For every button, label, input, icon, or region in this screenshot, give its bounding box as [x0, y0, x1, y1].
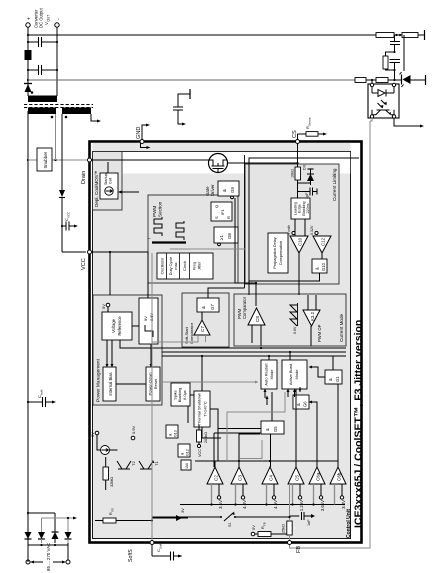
svg-text:Startup: Startup — [104, 173, 108, 185]
svg-text:+: + — [27, 17, 33, 20]
svg-text:Comparator: Comparator — [189, 322, 194, 344]
svg-text:Propagation Delay: Propagation Delay — [273, 237, 277, 268]
svg-text:0.32V: 0.32V — [310, 225, 314, 235]
svg-text:Comparator: Comparator — [242, 296, 247, 319]
svg-text:Active Burst: Active Burst — [288, 363, 293, 385]
svg-text:OUT: OUT — [47, 15, 51, 22]
svg-text:Cell: Cell — [109, 178, 113, 184]
svg-text:Current Limiting: Current Limiting — [332, 168, 337, 201]
svg-text:Drain: Drain — [81, 171, 87, 184]
svg-text:Oscillator: Oscillator — [160, 257, 165, 274]
svg-text:Sense: Sense — [308, 117, 312, 126]
svg-text:C3: C3 — [238, 475, 243, 481]
svg-text:DX: DX — [303, 164, 307, 170]
svg-text:&: & — [328, 378, 333, 381]
svg-text:Control Unit: Control Unit — [346, 509, 352, 538]
svg-text:Blanking: Blanking — [178, 388, 182, 403]
svg-text:VCC: VCC — [67, 211, 71, 218]
svg-text:Clock: Clock — [182, 261, 187, 271]
svg-text:Reset: Reset — [153, 378, 158, 389]
svg-text:C7: C7 — [200, 326, 205, 332]
svg-text:Freq: Freq — [193, 262, 197, 270]
svg-text:SoftS: SoftS — [128, 549, 134, 562]
svg-text:DC Output: DC Output — [39, 7, 44, 28]
svg-text:Q: Q — [214, 205, 219, 208]
svg-text:Voltage: Voltage — [111, 318, 116, 333]
svg-text:Depl. CoolMOS™: Depl. CoolMOS™ — [94, 170, 99, 207]
svg-text:Spike: Spike — [174, 390, 178, 400]
svg-text:&: & — [315, 267, 320, 270]
svg-text:Current Mode: Current Mode — [339, 313, 344, 342]
svg-text:C4: C4 — [269, 475, 274, 481]
svg-text:PWM OP: PWM OP — [317, 324, 322, 342]
svg-text:Mode: Mode — [294, 369, 299, 380]
svg-text:205kΩ: 205kΩ — [204, 432, 208, 443]
svg-text:G13: G13 — [174, 430, 178, 437]
svg-text:9V: 9V — [143, 316, 148, 321]
svg-text:G6: G6 — [303, 401, 308, 407]
svg-text:5V: 5V — [101, 304, 106, 309]
svg-text:GND: GND — [136, 127, 142, 139]
svg-text:Section: Section — [158, 201, 163, 217]
svg-text:Mode: Mode — [269, 369, 274, 380]
svg-text:SS: SS — [111, 508, 115, 512]
svg-text:G12: G12 — [186, 449, 190, 456]
svg-text:&: & — [201, 306, 206, 309]
svg-text:3V: 3V — [181, 508, 185, 513]
svg-text:FB: FB — [263, 522, 267, 526]
svg-text:85 ... 270 VAC: 85 ... 270 VAC — [46, 543, 51, 571]
svg-text:bulk: bulk — [40, 389, 44, 395]
svg-text:32MΩ: 32MΩ — [110, 477, 114, 487]
svg-text:T1: T1 — [154, 461, 159, 466]
svg-text:ICE3xxx65J / CoolSET™, F3 Jitt: ICE3xxx65J / CoolSET™, F3 Jitter version — [353, 320, 365, 528]
svg-text:CS: CS — [292, 130, 298, 138]
svg-text:G8: G8 — [227, 233, 232, 239]
svg-text:R: R — [226, 216, 231, 219]
svg-text:max: max — [174, 262, 178, 269]
svg-text:t: t — [148, 238, 152, 239]
svg-text:1pF: 1pF — [305, 192, 309, 199]
svg-text:0.6V: 0.6V — [293, 326, 297, 334]
svg-text:25kΩ: 25kΩ — [282, 524, 286, 533]
svg-text:Power Management: Power Management — [96, 358, 102, 402]
svg-text:≥1: ≥1 — [219, 235, 224, 240]
svg-text:C6a: C6a — [316, 472, 321, 481]
svg-text:G5: G5 — [273, 426, 278, 432]
svg-text:IF1: IF1 — [220, 208, 225, 215]
svg-text:&: & — [222, 189, 227, 192]
svg-text:5V: 5V — [90, 432, 95, 437]
svg-text:Driver: Driver — [210, 184, 215, 196]
svg-text:G9: G9 — [230, 187, 235, 193]
svg-text:Thermal Shutdown: Thermal Shutdown — [197, 393, 202, 426]
svg-text:Duty Cycle: Duty Cycle — [169, 257, 173, 275]
svg-text:5V: 5V — [251, 525, 256, 530]
svg-text:Snubber: Snubber — [43, 151, 48, 168]
svg-text:10kΩ: 10kΩ — [291, 169, 295, 178]
svg-text:Auto Restart: Auto Restart — [264, 362, 269, 385]
svg-text:Jitter: Jitter — [198, 261, 202, 270]
svg-text:G10: G10 — [321, 262, 326, 271]
svg-text:&: & — [265, 428, 270, 431]
svg-text:Reference: Reference — [117, 316, 122, 336]
svg-text:FB: FB — [296, 546, 302, 553]
svg-text:C10: C10 — [298, 237, 303, 246]
svg-text:1.25V: 1.25V — [299, 500, 304, 511]
svg-text:&: & — [296, 403, 301, 406]
svg-text:C5: C5 — [295, 475, 300, 481]
svg-text:S1: S1 — [228, 522, 232, 527]
svg-text:G1: G1 — [335, 376, 340, 382]
svg-text:T>140°C: T>140°C — [203, 401, 208, 417]
svg-text:8.0µs: 8.0µs — [183, 390, 187, 399]
svg-text:C12: C12 — [321, 237, 326, 246]
svg-text:VCC: VCC — [81, 258, 87, 270]
svg-text:Compensation: Compensation — [279, 241, 283, 265]
svg-text:C8: C8 — [255, 316, 260, 322]
svg-text:C6b: C6b — [337, 472, 342, 481]
svg-text:220ns: 220ns — [306, 203, 310, 213]
svg-text:PWM: PWM — [152, 206, 157, 217]
svg-text:0.9V: 0.9V — [131, 425, 136, 434]
svg-text:C2: C2 — [214, 475, 219, 481]
svg-text:Internal Bias: Internal Bias — [108, 372, 113, 395]
svg-text:IA0: IA0 — [185, 463, 189, 468]
svg-text:T2: T2 — [131, 461, 136, 466]
svg-text:S: S — [214, 216, 219, 219]
svg-text:VCC: VCC — [198, 449, 202, 457]
svg-text:1nF: 1nF — [307, 519, 311, 526]
svg-text:K3.2: K3.2 — [310, 311, 315, 321]
svg-text:Soft: Soft — [159, 543, 163, 549]
svg-text:3.61V: 3.61V — [320, 500, 325, 511]
svg-text:G7: G7 — [210, 304, 215, 310]
